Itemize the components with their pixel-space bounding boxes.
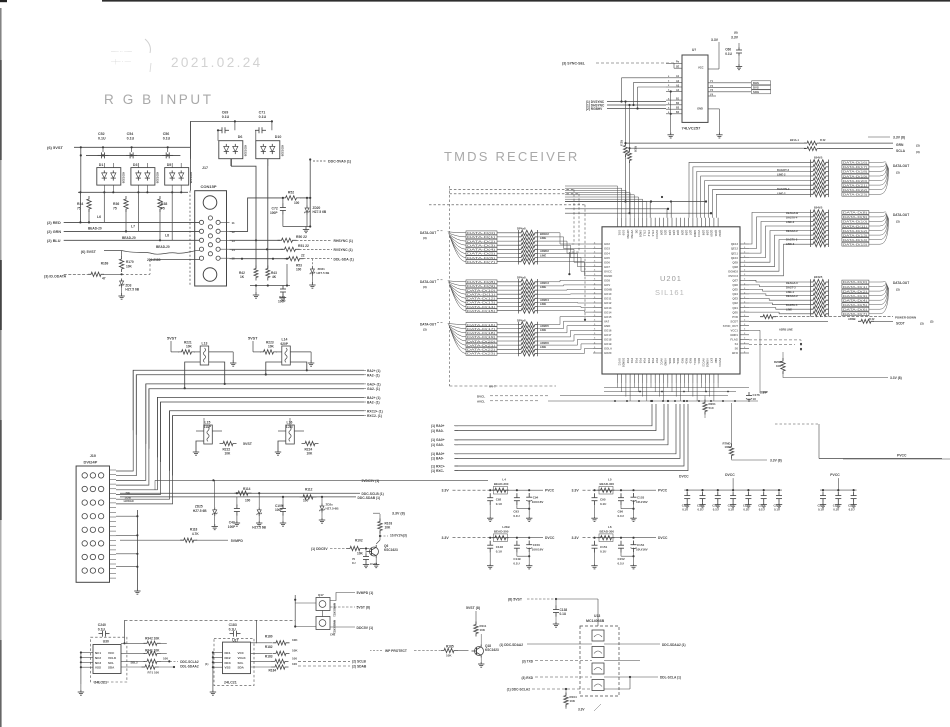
svg-text:POWER-DOWN: POWER-DOWN — [895, 315, 916, 319]
wire sync vertical pair — [625, 102, 627, 145]
svg-text:PVCC: PVCC — [545, 489, 555, 493]
net label DDC5V (1) q17 — [330, 626, 355, 628]
svg-text:DATA-OUT: DATA-OUT — [420, 231, 436, 235]
connector J10 pin r7c2 — [90, 554, 95, 559]
svg-text:75: 75 — [161, 206, 165, 210]
resistor R103 10K — [378, 519, 382, 534]
svg-text:ARNB: ARNB — [848, 317, 856, 321]
wire R206 to 3.3V — [783, 372, 888, 378]
svg-text:DATA-D(16): DATA-D(16) — [843, 161, 867, 165]
wire pvcc vertical — [818, 424, 820, 459]
svg-text:VCC: VCC — [698, 65, 704, 69]
connector CON15P shell hole bottom — [203, 268, 217, 282]
fan bracket DATA-OUT(8-15) — [448, 281, 466, 282]
svg-text:AVCC2: AVCC2 — [701, 358, 705, 367]
svg-text:VSYNC: VSYNC — [630, 230, 634, 239]
svg-text:0.1U: 0.1U — [98, 627, 106, 631]
svg-text:C52: C52 — [98, 132, 105, 136]
svg-text:QE0: QE0 — [732, 310, 738, 314]
svg-text:QD6: QD6 — [685, 230, 689, 236]
svg-text:100: 100 — [292, 662, 297, 666]
svg-text:(2) RGBHV: (2) RGBHV — [586, 107, 603, 111]
connector J10 pin r3c3 — [98, 500, 103, 505]
svg-text:(1): (1) — [205, 662, 208, 666]
net label DDC-5VA — [309, 159, 311, 180]
svg-text:PO5: PO5 — [647, 358, 651, 364]
svg-text:PO4: PO4 — [643, 358, 647, 364]
svg-text:D3: D3 — [133, 163, 138, 167]
ground C208 — [686, 503, 688, 505]
net label 5VMPD (1) q17 — [330, 593, 355, 601]
wire R52 node right — [300, 197, 310, 199]
svg-text:VCC: VCC — [108, 651, 115, 655]
svg-text:QE9: QE9 — [732, 260, 738, 264]
svg-text:0.1U: 0.1U — [163, 137, 171, 141]
svg-text:R38: R38 — [161, 202, 167, 206]
ground ZD26 — [258, 521, 260, 523]
svg-text:DATA-D(13): DATA-D(13) — [843, 233, 867, 237]
svg-text:NC2: NC2 — [95, 656, 101, 660]
capacitor C93 f1 — [516, 489, 518, 491]
svg-text:VSS: VSS — [225, 666, 231, 670]
ground ZD21 — [311, 282, 313, 285]
svg-text:DE: DE — [634, 230, 638, 234]
resistor R218 22 sclk — [804, 147, 820, 151]
connector J10 pin r2c2 — [90, 486, 95, 491]
svg-text:DDL-SDA (1): DDL-SDA (1) — [334, 257, 354, 261]
svg-text:3.3V: 3.3V — [442, 536, 450, 540]
svg-text:DGND2: DGND2 — [728, 269, 738, 273]
svg-text:10K: 10K — [446, 654, 452, 658]
ground C154 — [633, 564, 635, 566]
svg-text:CTL2: CTL2 — [647, 230, 651, 237]
wires top-left entry horizontals — [565, 201, 706, 203]
svg-text:LRDAC: LRDAC — [124, 499, 135, 503]
svg-text:DDC-SDAB (1): DDC-SDAB (1) — [358, 496, 381, 500]
resistor R217 22 grn — [804, 141, 820, 145]
svg-text:A2RB LINE: A2RB LINE — [779, 328, 793, 332]
ground C215 — [822, 503, 824, 505]
svg-text:24LC21: 24LC21 — [224, 681, 237, 685]
svg-text:10K: 10K — [480, 628, 486, 632]
svg-text:GO17: GO17 — [604, 333, 612, 337]
wire rail f4 — [583, 537, 595, 539]
svg-text:R102: R102 — [355, 539, 363, 543]
wires bottom pins down — [617, 383, 619, 388]
svg-text:0.1U: 0.1U — [725, 52, 732, 56]
svg-text:R 22: R 22 — [869, 317, 875, 321]
wire U13 rows — [527, 643, 592, 645]
wires DATA-OUT(0-7) stack to network — [497, 232, 519, 234]
svg-text:5VST (8): 5VST (8) — [357, 606, 371, 610]
wire U30 left pins — [81, 652, 93, 654]
ground C217 — [837, 503, 839, 505]
connector J10 pin r3c1 — [82, 500, 87, 505]
svg-text:DAGTA-4: DAGTA-4 — [786, 216, 798, 220]
svg-text:3.3V (8): 3.3V (8) — [770, 459, 782, 463]
svg-text:QD5: QD5 — [680, 230, 684, 236]
svg-text:GO8: GO8 — [604, 279, 610, 283]
svg-text:BFO: BFO — [732, 351, 739, 355]
capacitor C215 0.1U bank — [822, 492, 824, 496]
ground mux B col — [670, 92, 672, 133]
connector J10 pin r8c3 — [98, 568, 103, 573]
svg-text:GO13: GO13 — [604, 306, 612, 310]
svg-text:DAGON-4: DAGON-4 — [777, 187, 790, 191]
resistor R206 10K — [781, 358, 785, 374]
svg-text:4K: 4K — [272, 275, 277, 279]
svg-text:PO1: PO1 — [630, 358, 634, 364]
svg-text:GND4: GND4 — [693, 230, 697, 238]
svg-text:VCC1: VCC1 — [731, 329, 739, 333]
capacitor C214 0.1U bank — [778, 492, 780, 496]
connector J10 pin r1c2 — [90, 473, 95, 478]
capacitor C148 f3 — [489, 537, 491, 539]
svg-text:SCL: SCL — [108, 661, 114, 665]
junction dots bus — [614, 400, 616, 402]
svg-text:DGND3: DGND3 — [622, 358, 626, 368]
wire switch4 jog to row3 — [604, 688, 630, 690]
ground C214 — [778, 503, 780, 505]
svg-text:AGND2: AGND2 — [706, 358, 710, 368]
svg-text:DDL-SDAA2: DDL-SDAA2 — [180, 665, 199, 669]
ground ZD25 — [214, 524, 216, 527]
svg-text:L6: L6 — [97, 215, 101, 219]
wire flag s1 s0 dashes — [749, 340, 801, 352]
svg-text:LINE-3: LINE-3 — [786, 220, 795, 224]
svg-text:100P: 100P — [275, 508, 283, 512]
svg-text:GND: GND — [604, 324, 610, 328]
wire top rail to diode packs — [190, 120, 272, 122]
ground C209 — [702, 503, 704, 505]
svg-text:1U: 1U — [753, 397, 757, 401]
svg-text:5VMPD (1): 5VMPD (1) — [357, 591, 374, 595]
svg-text:—─ ·· ─—: —─ ·· ─— — [111, 49, 132, 54]
resistor R107 47 — [88, 272, 104, 276]
connector J10 pin r6c1 — [82, 541, 87, 546]
svg-text:NC1: NC1 — [225, 651, 231, 655]
svg-text:EXT: EXT — [710, 358, 714, 363]
capacitor C43 100P — [236, 505, 238, 509]
svg-text:KDS226: KDS226 — [189, 172, 193, 184]
svg-text:KSC1623: KSC1623 — [384, 548, 398, 552]
fan bracket DATA-OUT(0-7) — [448, 232, 466, 233]
transistor Q17 box lower — [316, 617, 330, 630]
svg-text:2021.02.24: 2021.02.24 — [171, 55, 263, 70]
svg-text:0.1U: 0.1U — [98, 137, 106, 141]
svg-text:74LVC257: 74LVC257 — [682, 126, 702, 131]
transistor Q18 KSC1623 — [475, 647, 484, 656]
wire cap to rail joints — [234, 121, 236, 130]
svg-text:WP PROTECT: WP PROTECT — [385, 649, 407, 653]
svg-text:GO18: GO18 — [604, 338, 612, 342]
svg-text:510: 510 — [709, 406, 714, 410]
svg-text:R183: R183 — [265, 655, 273, 659]
wire RED — [64, 221, 200, 223]
svg-text:10K: 10K — [725, 445, 730, 449]
svg-text:GO9B: GO9B — [604, 288, 612, 292]
svg-text:DATA-D(7): DATA-D(7) — [467, 260, 495, 264]
ground DVI shield — [136, 589, 138, 592]
wire L13 bottom pins — [185, 362, 201, 388]
svg-text:DATA-D(22): DATA-D(22) — [843, 188, 867, 192]
svg-text:BA2+ (1): BA2+ (1) — [367, 396, 380, 400]
svg-text:RX0+: RX0+ — [668, 358, 672, 365]
net label 5VST (8) q17 — [330, 606, 355, 608]
wires left networks to U201 pins — [538, 233, 594, 244]
wire L14 bottom pins — [266, 362, 282, 375]
svg-text:QE8: QE8 — [732, 265, 738, 269]
svg-text:D5: D5 — [167, 163, 172, 167]
wire cap rail — [86, 154, 180, 156]
wire 5VST to R106 — [104, 250, 122, 252]
wire D6 output — [231, 159, 256, 172]
svg-text:AR2D2: AR2D2 — [540, 249, 549, 253]
wire bottom join — [250, 285, 290, 287]
net label mux outputs — [752, 81, 771, 85]
resistor R50 22 — [278, 238, 297, 242]
svg-text:(8): (8) — [734, 31, 738, 35]
svg-text:0.1U: 0.1U — [560, 612, 567, 616]
capacitor C152 f4 — [620, 537, 622, 539]
svg-text:─┼─ · ──: ─┼─ · ── — [110, 58, 132, 65]
svg-text:R52: R52 — [288, 191, 294, 195]
svg-text:DDL-SCLA (1): DDL-SCLA (1) — [660, 676, 681, 680]
svg-text:C4B: C4B — [330, 633, 335, 637]
svg-text:SCLA: SCLA — [896, 149, 906, 153]
ground C138 — [555, 622, 557, 624]
svg-text:QD11: QD11 — [714, 230, 718, 237]
svg-text:B04\/\5: B04\/\5 — [814, 155, 823, 159]
svg-text:PVCC: PVCC — [897, 454, 907, 458]
svg-text:(3): (3) — [423, 236, 427, 240]
svg-text:(8) 5VST: (8) 5VST — [508, 598, 523, 602]
wire to zener — [103, 273, 122, 275]
connector J10 pin r7c3 — [98, 554, 103, 559]
connector J10 pin r1c3 — [98, 473, 103, 478]
ground C210 — [717, 503, 719, 505]
svg-text:PVCC: PVCC — [658, 489, 668, 493]
ground C213 — [763, 503, 765, 505]
svg-text:D6: D6 — [238, 135, 243, 139]
svg-text:(1) GA0-: (1) GA0- — [431, 443, 444, 447]
svg-text:5VST: 5VST — [248, 337, 258, 341]
svg-text:D1: D1 — [99, 163, 104, 167]
svg-text:DATA-D(1): DATA-D(1) — [843, 285, 867, 289]
wire sync pair drops — [625, 156, 627, 202]
ground U17b — [212, 690, 214, 692]
capacitor C96 f2 — [620, 489, 622, 491]
svg-text:GO19: GO19 — [604, 342, 612, 346]
svg-text:(2) BLU: (2) BLU — [47, 239, 61, 243]
svg-text:BEAD-300: BEAD-300 — [494, 482, 509, 486]
svg-text:RXC-: RXC- — [697, 358, 701, 364]
connector J10 pin r4c1 — [82, 514, 87, 519]
capacitor C213 0.1U bank — [763, 492, 765, 496]
svg-text:(3): (3) — [423, 328, 427, 332]
svg-text:DATA-OUT: DATA-OUT — [893, 164, 909, 168]
connector J10 pin r2c1 — [82, 486, 87, 491]
svg-text:B04\/\5: B04\/\5 — [814, 205, 823, 209]
svg-text:SBL2: SBL2 — [131, 660, 139, 664]
svg-text:DATA-D(19): DATA-D(19) — [843, 174, 867, 178]
svg-text:C66: C66 — [725, 48, 731, 52]
svg-text:VA7: VA7 — [604, 319, 610, 323]
svg-text:MMBD3011: MMBD3011 — [333, 620, 337, 634]
ground Q18 — [480, 658, 482, 663]
svg-text:PO2: PO2 — [634, 358, 638, 364]
resistor R204 10K under ic — [729, 444, 733, 459]
zener ZD26 HZ7.5-6B — [257, 510, 261, 514]
capacitor C212 0.1U bank — [747, 492, 749, 496]
connector J10 pin r7c1 — [82, 554, 87, 559]
svg-text:DATA-D(21): DATA-D(21) — [843, 183, 867, 187]
svg-text:DAGT-3: DAGT-3 — [786, 285, 796, 289]
wire bus under U201 — [604, 387, 744, 389]
resistor R184 100 — [251, 666, 273, 668]
svg-text:B04\/\5: B04\/\5 — [814, 275, 823, 279]
ground C109 — [282, 521, 284, 523]
svg-text:R G B INPUT: R G B INPUT — [104, 92, 214, 107]
resistor R213 22 — [624, 143, 628, 157]
ic U201 right pins — [740, 243, 749, 245]
svg-text:UV-T: UV-T — [489, 385, 496, 389]
wire D10 output — [267, 159, 269, 198]
svg-text:U30: U30 — [103, 640, 109, 644]
svg-text:CTL1: CTL1 — [643, 230, 647, 237]
svg-text:R182: R182 — [265, 645, 273, 649]
wire pvcc feed — [819, 458, 942, 460]
connector CON15P pin circles — [199, 220, 203, 224]
svg-text:HZ7.5 6B: HZ7.5 6B — [125, 288, 139, 292]
resistor R222 10K — [220, 441, 237, 445]
svg-text:DDC-5VA0 (1): DDC-5VA0 (1) — [328, 160, 352, 164]
svg-text:QE7: QE7 — [732, 279, 738, 283]
svg-text:LINE: LINE — [540, 345, 546, 349]
svg-text:10K: 10K — [268, 345, 275, 349]
svg-text:GO11: GO11 — [604, 297, 612, 301]
svg-text:C54: C54 — [127, 132, 134, 136]
svg-text:PVCC1: PVCC1 — [718, 358, 722, 367]
net label 3.3V bottom — [565, 705, 567, 709]
svg-text:C56: C56 — [163, 132, 170, 136]
ground C148 — [489, 564, 491, 566]
ground C94 — [528, 517, 530, 519]
svg-text:AR2D6: AR2D6 — [540, 341, 549, 345]
svg-text:U13: U13 — [594, 614, 600, 618]
svg-text:PO3: PO3 — [639, 358, 643, 364]
wire ID line — [64, 273, 88, 275]
fan bracket right 3 — [869, 281, 886, 282]
svg-text:DHS: DHS — [753, 81, 759, 85]
svg-text:VCLK: VCLK — [108, 656, 117, 660]
svg-text:DATA-D(6): DATA-D(6) — [843, 308, 867, 312]
svg-text:(1) RXC-: (1) RXC- — [431, 469, 444, 473]
svg-text:(3): (3) — [916, 150, 920, 154]
svg-text:0.1U: 0.1U — [600, 502, 606, 506]
wire SCLB SDAB — [298, 660, 350, 662]
svg-text:DATA-D(7): DATA-D(7) — [843, 312, 867, 316]
svg-text:10K: 10K — [776, 364, 781, 368]
connector J10 pin r4c2 — [90, 514, 95, 519]
svg-text:0.1U: 0.1U — [496, 502, 502, 506]
wire SDA line — [230, 258, 288, 260]
svg-text:TMDS RECEIVER: TMDS RECEIVER — [444, 149, 580, 164]
scan edge top-left corner mark — [0, 0, 7, 2]
svg-text:75: 75 — [113, 206, 117, 210]
wire RHSYNC — [230, 239, 281, 241]
svg-text:DATA-D(3): DATA-D(3) — [843, 294, 867, 298]
net flag stack right 3 — [842, 280, 869, 284]
svg-text:LINE: LINE — [540, 285, 546, 289]
transistor Q6 KSC1623 — [370, 547, 379, 556]
svg-text:(1) RXC+: (1) RXC+ — [431, 464, 445, 468]
svg-text:GO3: GO3 — [604, 247, 610, 251]
diode array D1 KDS226 — [97, 168, 121, 186]
svg-text:(3) ID.ODATA: (3) ID.ODATA — [44, 275, 67, 279]
ground L16 — [278, 441, 286, 450]
wire mux inputs from left — [607, 101, 666, 103]
svg-text:DVCC2: DVCC2 — [729, 274, 739, 278]
wire PVCC bank rail — [820, 489, 857, 491]
svg-text:DDC-SDAA2 (1): DDC-SDAA2 (1) — [662, 643, 686, 647]
svg-text:U201: U201 — [660, 274, 682, 283]
svg-text:QD10: QD10 — [710, 230, 714, 237]
svg-text:CTL3: CTL3 — [651, 230, 655, 237]
svg-text:SIL161: SIL161 — [655, 288, 685, 297]
svg-text:BEAD-300: BEAD-300 — [494, 529, 509, 533]
wire rail f2 — [583, 489, 595, 491]
svg-text:100P: 100P — [270, 211, 278, 215]
capacitor C138 0.1U — [555, 606, 557, 610]
ground mux — [718, 132, 720, 135]
net flag stack right 1 — [842, 160, 869, 164]
resistor R53 100 branch — [286, 258, 288, 260]
wire mux A input risers — [621, 78, 623, 102]
svg-text:KDS226: KDS226 — [280, 145, 284, 157]
svg-text:AR2C3: AR2C3 — [540, 281, 549, 285]
net label DDC-SCLA2 (1) — [170, 660, 178, 662]
wire L15 L16 verticals — [203, 418, 205, 425]
svg-text:REAGA-0: REAGA-0 — [786, 281, 798, 285]
resistor R104 10K — [564, 693, 568, 708]
svg-text:BEAD-20: BEAD-20 — [156, 245, 170, 249]
wires right group1 from top bundle — [689, 162, 811, 218]
svg-text:DATA-OUT: DATA-OUT — [893, 281, 909, 285]
resistor R34 75 — [87, 196, 91, 212]
svg-text:GO2: GO2 — [604, 242, 610, 246]
scan edge left strip — [0, 8, 2, 60]
svg-text:100: 100 — [296, 268, 302, 272]
svg-text:REF: REF — [714, 358, 718, 364]
svg-text:(3): (3) — [423, 285, 427, 289]
svg-text:24LC21: 24LC21 — [94, 681, 107, 685]
resistor R52 100 — [282, 196, 301, 200]
svg-text:DATA-D(23): DATA-D(23) — [467, 352, 495, 356]
svg-text:10K: 10K — [357, 552, 364, 556]
connector J10 pin r5c3 — [98, 527, 103, 532]
wire U13 vcc — [556, 598, 598, 600]
fan bracket DATA-OUT(16-23) — [448, 324, 466, 325]
ground C95 — [594, 517, 596, 519]
svg-text:(1) BA0+: (1) BA0+ — [431, 452, 445, 456]
svg-text:QD12: QD12 — [718, 230, 722, 237]
svg-text:AGND: AGND — [664, 358, 668, 366]
svg-text:QE4: QE4 — [732, 292, 738, 296]
resistor R201 510 — [703, 400, 707, 415]
vertical dashed feeds into left area — [568, 252, 570, 275]
resistor R214 22 — [628, 149, 632, 163]
